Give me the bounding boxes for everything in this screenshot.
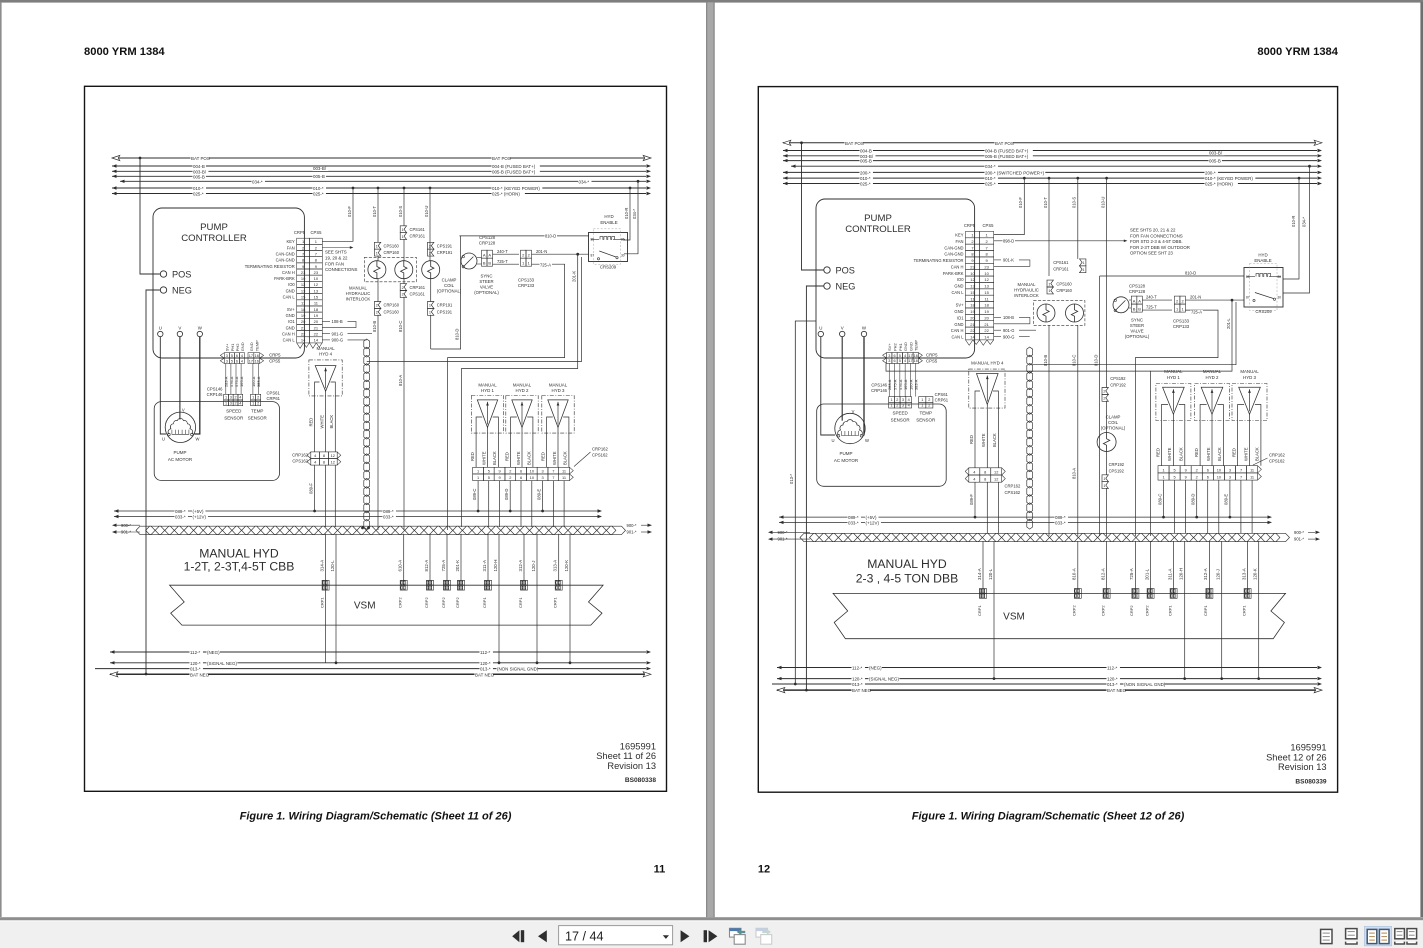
wire bus 005-B — [783, 160, 1317, 162]
solenoid clamp coil — [422, 261, 440, 279]
svg-text:5: 5 — [231, 359, 233, 363]
wire bus 112-* NEG — [777, 667, 1317, 669]
svg-text:BLACK: BLACK — [992, 433, 997, 447]
svg-text:22: 22 — [970, 328, 975, 333]
wire 120-J through VSM — [1221, 593, 1223, 678]
svg-text:SENSOR: SENSOR — [916, 417, 936, 422]
wire V phase — [179, 337, 181, 420]
wires hyd4 white/black to braid — [986, 482, 988, 533]
svg-text:Figure 1. Wiring Diagram/Schem: Figure 1. Wiring Diagram/Schematic (Shee… — [912, 811, 1185, 823]
svg-text:RED: RED — [470, 452, 475, 461]
svg-text:RED: RED — [969, 435, 974, 444]
svg-text:17: 17 — [249, 354, 253, 358]
svg-text:(SIGNAL NEG): (SIGNAL NEG) — [869, 677, 899, 682]
svg-text:1: 1 — [1162, 475, 1164, 480]
svg-text:16: 16 — [255, 354, 259, 358]
svg-text:312-A: 312-A — [1203, 568, 1208, 580]
svg-text:901-G: 901-G — [1003, 328, 1014, 333]
svg-text:4: 4 — [239, 401, 241, 405]
svg-text:MANUAL: MANUAL — [1018, 282, 1037, 287]
svg-text:3: 3 — [902, 398, 904, 402]
solenoid valve V1 manual hydraulic interlock — [1037, 304, 1055, 322]
svg-text:GND: GND — [908, 342, 913, 351]
svg-text:3: 3 — [888, 354, 890, 358]
manual hyd 3 valve triangle — [548, 400, 568, 428]
svg-text:2: 2 — [1196, 467, 1198, 472]
svg-text:10: 10 — [970, 271, 975, 276]
page divider strip — [706, 3, 714, 918]
svg-text:2: 2 — [376, 311, 378, 315]
svg-text:003-B/: 003-B/ — [313, 166, 327, 171]
svg-text:AC MOTOR: AC MOTOR — [834, 458, 859, 463]
svg-text:MANUAL: MANUAL — [1240, 369, 1259, 374]
svg-text:201-N: 201-N — [536, 249, 547, 254]
wire 010-S — [403, 188, 405, 226]
svg-text:CLAMP: CLAMP — [1106, 414, 1121, 419]
wire bus 033-* +12V — [114, 516, 598, 518]
svg-text:CRP128: CRP128 — [1129, 289, 1146, 294]
svg-text:BS080339: BS080339 — [1295, 779, 1326, 786]
status toolbar background — [0, 920, 1423, 948]
svg-text:HYD 4: HYD 4 — [319, 352, 332, 357]
svg-text:1: 1 — [1048, 289, 1050, 293]
svg-text:8: 8 — [984, 469, 986, 474]
svg-text:WHITE: WHITE — [481, 451, 486, 465]
toolbar first-page button — [512, 930, 519, 942]
svg-text:810-B: 810-B — [1043, 355, 1048, 366]
wire 314-A through VSM — [325, 585, 327, 663]
manual hyd 1 valve box — [471, 396, 503, 434]
svg-text:20: 20 — [301, 319, 306, 324]
svg-text:8: 8 — [984, 477, 986, 482]
wire 120-J through VSM — [536, 585, 538, 663]
svg-text:005-B (FUSED BAT+): 005-B (FUSED BAT+) — [492, 169, 536, 174]
wire 010-U — [429, 188, 431, 261]
svg-text:010-*: 010-* — [985, 176, 996, 181]
wire stub 108-B — [994, 316, 1001, 318]
solenoid valve V1 manual hydraulic interlock — [368, 261, 386, 279]
svg-text:089-C: 089-C — [1157, 494, 1162, 505]
svg-text:4: 4 — [241, 359, 243, 363]
connector speed sensor cells — [889, 397, 895, 403]
wire 810-B — [377, 256, 379, 261]
svg-text:IO0: IO0 — [957, 277, 964, 282]
svg-text:MANUAL: MANUAL — [478, 382, 497, 387]
svg-text:MANUAL: MANUAL — [349, 285, 368, 290]
svg-text:2: 2 — [257, 401, 259, 405]
svg-text:WHITE: WHITE — [981, 433, 986, 447]
svg-text:CAN H: CAN H — [951, 264, 964, 269]
pump AC motor M1 — [165, 412, 195, 442]
relay CRS209 box — [1244, 268, 1283, 308]
svg-text:CONTROLLER: CONTROLLER — [845, 224, 911, 235]
connector CRP2 at 201-L — [1147, 589, 1154, 594]
wire 610-A to VSM — [403, 534, 405, 585]
svg-text:CRP61: CRP61 — [267, 396, 281, 401]
svg-text:19: 19 — [984, 309, 989, 314]
svg-text:IO1: IO1 — [288, 319, 295, 324]
svg-text:120-K: 120-K — [564, 560, 569, 572]
svg-text:MANUAL: MANUAL — [1203, 369, 1222, 374]
svg-text:WHITE: WHITE — [516, 451, 521, 465]
wire relay staircase to chain — [367, 257, 582, 362]
terminal V — [177, 331, 182, 336]
svg-text:B: B — [1138, 306, 1141, 311]
wire bus 034-* — [791, 165, 1317, 167]
svg-text:810-D: 810-D — [1093, 355, 1098, 366]
svg-text:CRP160: CRP160 — [1056, 288, 1072, 293]
svg-text:12: 12 — [994, 469, 998, 474]
svg-text:013-*: 013-* — [1107, 682, 1118, 687]
svg-text:120-*: 120-* — [852, 677, 863, 682]
svg-text:240-T: 240-T — [497, 249, 508, 254]
terminal NEG — [824, 283, 830, 289]
svg-text:010-* (KEYED POWER): 010-* (KEYED POWER) — [1205, 176, 1253, 181]
svg-text:CRP1: CRP1 — [1167, 605, 1172, 616]
svg-text:VSM: VSM — [1003, 612, 1025, 623]
svg-text:FOR 2-3T DBB W/ OUTDOOR: FOR 2-3T DBB W/ OUTDOOR — [1130, 245, 1190, 250]
svg-text:4: 4 — [904, 359, 906, 363]
wires RED WHITE BLACK manual hyd 2 — [510, 433, 512, 467]
svg-text:311-A: 311-A — [1167, 569, 1172, 580]
svg-text:MANUAL: MANUAL — [513, 382, 532, 387]
svg-text:1: 1 — [225, 396, 227, 400]
svg-text:BAT NEG: BAT NEG — [852, 688, 872, 693]
svg-text:010-F: 010-F — [347, 206, 352, 217]
wire 201-L to VSM — [1150, 541, 1152, 593]
wire 120-L to VSM — [993, 541, 995, 593]
toolbar two-page layout button (active) — [1364, 926, 1391, 945]
svg-text:005-B: 005-B — [860, 159, 872, 164]
svg-text:CRP161: CRP161 — [410, 285, 426, 290]
svg-text:005-B (FUSED BAT+): 005-B (FUSED BAT+) — [985, 154, 1029, 159]
wires RED WHITE BLACK manual hyd 1 — [475, 433, 477, 467]
svg-text:200-*: 200-* — [860, 170, 871, 175]
svg-text:CRP161: CRP161 — [1053, 267, 1069, 272]
svg-text:CRP5: CRP5 — [926, 353, 938, 358]
svg-text:810-A: 810-A — [1072, 468, 1077, 479]
viewer left border — [0, 2, 2, 917]
svg-text:Sheet 12 of 26: Sheet 12 of 26 — [1266, 752, 1326, 762]
svg-text:CRP1: CRP1 — [482, 597, 487, 608]
wire 725-A to VSM — [448, 264, 565, 530]
svg-text:14: 14 — [984, 335, 989, 340]
wire 312-A to VSM — [1208, 541, 1210, 593]
svg-text:16: 16 — [255, 359, 259, 363]
svg-text:12: 12 — [331, 460, 335, 465]
terminal V — [840, 331, 845, 336]
svg-text:312-A: 312-A — [518, 560, 523, 572]
svg-text:GND: GND — [240, 342, 245, 351]
svg-text:6: 6 — [236, 359, 238, 363]
svg-text:CPS192: CPS192 — [1109, 468, 1125, 473]
svg-text:TEMP: TEMP — [914, 340, 919, 351]
wire 034-* to relay — [624, 181, 638, 254]
braided conduit bus 900/901 — [136, 526, 155, 534]
VSM module banner — [170, 585, 603, 625]
svg-text:(+12V): (+12V) — [193, 515, 207, 520]
svg-text:B: B — [1133, 306, 1136, 311]
svg-text:12: 12 — [758, 864, 770, 876]
terminal POS — [160, 271, 166, 277]
svg-text:7: 7 — [1240, 467, 1242, 472]
svg-text:(OPTIONAL): (OPTIONAL) — [474, 290, 499, 295]
svg-text:CRP2: CRP2 — [1144, 605, 1149, 616]
wire U phase — [821, 337, 835, 435]
junction dots chain to braid — [361, 527, 364, 530]
wire 812-A to VSM — [1106, 541, 1108, 593]
svg-text:100-A: 100-A — [908, 379, 913, 390]
svg-text:CRS209: CRS209 — [1255, 309, 1272, 314]
connector CRP160/CPS160 lower — [374, 302, 380, 309]
wire bus 034-* — [120, 180, 646, 182]
svg-text:034-*: 034-* — [1302, 217, 1307, 227]
svg-text:1: 1 — [477, 468, 479, 473]
svg-text:SYNC: SYNC — [1131, 317, 1143, 322]
svg-text:576-A: 576-A — [898, 379, 903, 390]
svg-text:CRP162: CRP162 — [592, 446, 608, 451]
svg-text:CAN L: CAN L — [951, 290, 964, 295]
chain conduit vertical — [364, 339, 370, 349]
svg-text:BAT NEG: BAT NEG — [1107, 688, 1127, 693]
wire bus 120-* SIGNAL NEG — [110, 662, 646, 664]
terminal W — [197, 331, 202, 336]
svg-text:TERMINATING RESISTOR: TERMINATING RESISTOR — [914, 258, 964, 263]
svg-text:CPS5: CPS5 — [983, 223, 995, 228]
wires to sensors — [888, 363, 890, 396]
svg-text:CPS133: CPS133 — [1173, 318, 1190, 323]
wires RED WHITE BLACK manual hyd 3 — [546, 433, 548, 467]
svg-text:U: U — [831, 438, 834, 443]
svg-text:23: 23 — [314, 270, 319, 275]
svg-text:(OPTIONAL): (OPTIONAL) — [1101, 425, 1126, 430]
svg-text:1: 1 — [1162, 467, 1164, 472]
svg-text:120-J: 120-J — [1216, 569, 1221, 580]
svg-text:812-A: 812-A — [424, 560, 429, 572]
svg-text:810-A: 810-A — [398, 375, 403, 386]
svg-text:025-* (HORN): 025-* (HORN) — [1205, 182, 1233, 187]
svg-text:SEE SHTS: SEE SHTS — [325, 250, 347, 255]
junctions on signal neg bus — [993, 677, 996, 680]
svg-text:CRP1: CRP1 — [1241, 605, 1246, 616]
svg-text:HYD 1: HYD 1 — [1167, 375, 1180, 380]
svg-text:10: 10 — [301, 276, 306, 281]
connector CRP5/CPS5 row — [887, 353, 892, 358]
svg-text:BLACK: BLACK — [1217, 447, 1222, 461]
pump AC motor M1 box — [154, 402, 279, 481]
svg-text:3: 3 — [902, 404, 904, 408]
svg-text:089-*: 089-* — [383, 509, 394, 514]
manual hyd 1 valve triangle — [1163, 387, 1185, 414]
wire stub 901-G — [322, 333, 330, 335]
connector CRP2 at 810-A — [1074, 589, 1081, 594]
wires 089-C 089-D 089-E — [477, 481, 479, 511]
wire bus 010-* keyed power — [112, 187, 646, 189]
svg-text:6: 6 — [520, 475, 522, 480]
wire 010-R — [624, 188, 630, 240]
svg-text:120-K: 120-K — [1253, 568, 1258, 580]
wire 201-K staircase — [576, 253, 579, 256]
svg-text:Revision 13: Revision 13 — [607, 761, 656, 771]
svg-text:5: 5 — [899, 359, 901, 363]
svg-text:NEG: NEG — [836, 281, 856, 291]
svg-text:089-F: 089-F — [308, 483, 313, 494]
svg-text:INTERLOCK: INTERLOCK — [1014, 293, 1039, 298]
connector CRP5/CPS5 row — [224, 353, 229, 358]
svg-text:11: 11 — [654, 864, 666, 876]
svg-text:1695991: 1695991 — [620, 742, 656, 752]
svg-text:2: 2 — [235, 401, 237, 405]
svg-text:810-D: 810-D — [545, 234, 556, 239]
wire 120-J to VSM — [1221, 541, 1223, 593]
svg-text:201-N: 201-N — [1190, 295, 1201, 300]
svg-text:OPTION SEE SHT 23: OPTION SEE SHT 23 — [1130, 251, 1173, 256]
svg-text:112-*: 112-* — [190, 650, 201, 655]
svg-text:010-U: 010-U — [424, 206, 429, 217]
svg-text:6: 6 — [520, 468, 522, 473]
svg-text:8: 8 — [323, 460, 325, 465]
svg-text:900-*: 900-* — [1294, 530, 1304, 535]
svg-text:5: 5 — [231, 354, 233, 358]
svg-text:21: 21 — [970, 322, 975, 327]
svg-text:CONTROLLER: CONTROLLER — [181, 233, 247, 244]
svg-text:5: 5 — [899, 354, 901, 358]
svg-text:18: 18 — [970, 303, 975, 308]
wire W phase — [863, 337, 866, 435]
wire 314-A to VSM — [325, 534, 327, 585]
wires RED WHITE BLACK manual hyd 2 — [1199, 421, 1201, 466]
wires RED WHITE BLACK manual hyd 3 — [1237, 421, 1239, 466]
svg-text:120-*: 120-* — [190, 661, 201, 666]
svg-text:18: 18 — [314, 307, 319, 312]
svg-text:6: 6 — [893, 359, 895, 363]
svg-text:CPS191: CPS191 — [437, 309, 453, 314]
svg-text:010-T: 010-T — [1043, 197, 1048, 208]
svg-text:FOR STD 2-3 & 4-5T DBB.: FOR STD 2-3 & 4-5T DBB. — [1130, 239, 1183, 244]
svg-text:21: 21 — [314, 325, 319, 330]
svg-text:CAN L: CAN L — [951, 335, 964, 340]
svg-text:MANUAL HYD: MANUAL HYD — [867, 557, 947, 571]
svg-text:STEER: STEER — [479, 279, 493, 284]
svg-text:FOR FAN CONNECTIONS: FOR FAN CONNECTIONS — [1130, 233, 1183, 238]
wires RED WHITE BLACK manual hyd 1 — [1161, 421, 1163, 466]
svg-text:18: 18 — [301, 307, 306, 312]
svg-text:1: 1 — [1082, 268, 1084, 272]
svg-text:3: 3 — [230, 396, 232, 400]
wire 120-L through VSM — [993, 593, 995, 678]
svg-text:9: 9 — [498, 475, 500, 480]
svg-text:W: W — [196, 437, 200, 442]
wire 120-H to VSM — [498, 534, 500, 585]
toolbar single-page layout button — [1321, 929, 1332, 943]
svg-text:MANUAL: MANUAL — [549, 382, 568, 387]
wire 725-T — [1142, 309, 1172, 311]
svg-text:19: 19 — [970, 309, 975, 314]
svg-text:005-B: 005-B — [1209, 158, 1221, 163]
pump AC motor M1 box — [817, 404, 947, 486]
svg-text:200-* (SWITCHED POWER+): 200-* (SWITCHED POWER+) — [985, 170, 1045, 175]
connector CRP2 at 201-K — [458, 580, 465, 585]
svg-text:15: 15 — [314, 295, 319, 300]
wire 010-U — [1106, 178, 1108, 387]
svg-text:12: 12 — [970, 277, 975, 282]
svg-text:CPS160: CPS160 — [1056, 281, 1072, 286]
chain conduit vertical — [1027, 347, 1033, 357]
manual hyd 2 valve triangle — [1201, 387, 1223, 414]
wire 120-K through VSM — [1258, 593, 1260, 678]
svg-text:3: 3 — [1229, 475, 1231, 480]
wire clamp coil to 810-D — [430, 279, 432, 302]
svg-text:575-A: 575-A — [893, 379, 898, 390]
wire stub 900-G — [994, 336, 1001, 338]
svg-text:STEER: STEER — [1130, 323, 1144, 328]
svg-text:004-B: 004-B — [193, 164, 205, 169]
svg-text:17 / 44: 17 / 44 — [565, 929, 604, 943]
svg-text:025-*: 025-* — [193, 192, 204, 197]
wire bus 004-B — [783, 150, 1317, 152]
wires hyd4 white/black to braid — [325, 465, 327, 527]
svg-text:16: 16 — [914, 354, 918, 358]
svg-text:SPEED: SPEED — [226, 409, 242, 414]
svg-text:PUMP: PUMP — [173, 450, 186, 455]
wire bus 010-* keyed power — [783, 177, 1317, 179]
svg-text:VALVE: VALVE — [1130, 328, 1143, 333]
svg-text:(+5V): (+5V) — [866, 515, 877, 520]
manual hyd 2 valve box — [506, 396, 538, 434]
manual hyd 4 valve box — [969, 369, 1005, 408]
svg-text:CPS133: CPS133 — [518, 277, 535, 282]
svg-text:313-A: 313-A — [1241, 568, 1246, 580]
svg-text:725-A: 725-A — [1191, 309, 1202, 314]
relay CRS209 box — [589, 233, 628, 262]
svg-text:GND: GND — [286, 325, 295, 330]
svg-text:810-C: 810-C — [398, 321, 403, 332]
svg-text:SEE SHTS 20, 21 & 22: SEE SHTS 20, 21 & 22 — [1130, 228, 1176, 233]
svg-text:WHITE: WHITE — [1167, 447, 1172, 461]
wire 810-D vertical — [1099, 276, 1101, 536]
svg-text:3: 3 — [541, 468, 543, 473]
solenoid sync steer valve — [1113, 297, 1129, 313]
wire bus 004-B — [112, 165, 646, 167]
svg-text:HYD: HYD — [604, 214, 613, 219]
svg-text:CRP160: CRP160 — [384, 303, 400, 308]
svg-text:1: 1 — [921, 404, 923, 408]
svg-text:11: 11 — [1250, 467, 1254, 472]
connector CPS133 cells — [1174, 296, 1180, 304]
svg-text:7: 7 — [1240, 475, 1242, 480]
solenoid valve V2 manual hydraulic interlock — [1066, 304, 1084, 322]
wires to speed/temp sensors — [225, 364, 227, 395]
svg-text:1: 1 — [890, 404, 892, 408]
svg-text:FAN: FAN — [287, 245, 295, 250]
svg-text:WHITE: WHITE — [552, 451, 557, 465]
wire 313-A to VSM — [558, 534, 560, 585]
wire 010-R — [1283, 178, 1299, 279]
svg-text:BLACK: BLACK — [527, 451, 532, 465]
svg-text:17: 17 — [249, 359, 253, 363]
svg-text:2: 2 — [402, 293, 404, 297]
svg-text:725-A: 725-A — [441, 560, 446, 572]
svg-text:034-*: 034-* — [579, 179, 590, 184]
svg-text:BLACK: BLACK — [1255, 447, 1260, 461]
svg-text:010-S: 010-S — [1072, 197, 1077, 208]
svg-text:10: 10 — [314, 276, 319, 281]
svg-text:9: 9 — [1185, 475, 1187, 480]
svg-text:898-D: 898-D — [1003, 239, 1014, 244]
svg-text:ENABLE: ENABLE — [600, 220, 617, 225]
wire 898-D fan — [994, 240, 1124, 242]
svg-text:HYD 2: HYD 2 — [1206, 375, 1219, 380]
